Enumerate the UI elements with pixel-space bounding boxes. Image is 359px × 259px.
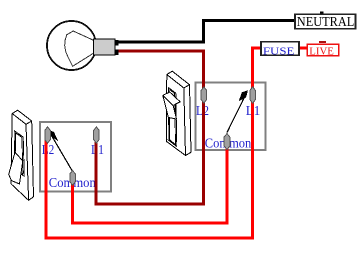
wire red: FUSE to LIVE	[299, 47, 307, 50]
SW2 terminal common	[224, 134, 230, 150]
physical switch SW2	[163, 71, 191, 155]
SW1 terminal common	[70, 171, 76, 186]
lamp bulb	[47, 21, 96, 70]
wire red: SW1 common to SW2 common	[73, 138, 227, 223]
SW1 terminal L2	[45, 127, 51, 143]
artifact mark above NEUTRAL	[320, 11, 324, 13]
switch box SW1	[40, 122, 111, 192]
SW1 arm head	[49, 130, 58, 141]
SW2 terminal L1	[250, 87, 256, 103]
wire live red: FUSE down through SW2 L1 to SW1 L2	[46, 48, 261, 238]
lamp terminal top	[115, 40, 119, 46]
SW2 arm head	[239, 90, 248, 101]
wire neutral black: lamp to NEUTRAL	[115, 21, 295, 43]
lamp terminal bottom	[115, 50, 119, 56]
NEUTRAL box	[295, 14, 356, 28]
lamp holder	[94, 39, 116, 55]
LIVE box	[307, 44, 339, 56]
physical switch SW1	[9, 110, 34, 200]
SW2 arm	[227, 94, 246, 133]
svg-text:LIVE: LIVE	[309, 45, 334, 57]
svg-text:L2: L2	[42, 143, 55, 158]
SW1 terminal L1	[94, 127, 100, 143]
lamp glass inner	[65, 31, 94, 66]
wire dark red: lamp down through SW2 L2 to SW1 L1	[96, 51, 204, 204]
switch box SW2	[196, 83, 266, 151]
svg-text:NEUTRAL: NEUTRAL	[297, 15, 355, 30]
SW1 arm	[52, 136, 73, 172]
svg-text:FUSE: FUSE	[263, 45, 295, 57]
FUSE box	[261, 42, 299, 56]
SW2 terminal L2	[201, 87, 207, 103]
artifact mark above LIVE	[319, 41, 326, 43]
